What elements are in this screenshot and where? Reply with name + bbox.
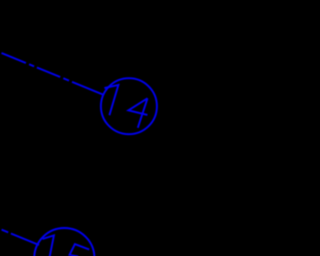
leader line to callout 15 (dash-dot) xyxy=(2,230,39,245)
callout circle 15 xyxy=(34,228,94,256)
label 14 digit 1 xyxy=(104,85,118,115)
label 15 digit 1 xyxy=(43,235,54,256)
label 15 digit 5 xyxy=(70,244,90,256)
leader line to callout 14 (dash-dot) xyxy=(2,53,104,95)
callout circle 14 xyxy=(101,78,157,134)
label 14 digit 4 xyxy=(128,98,147,128)
